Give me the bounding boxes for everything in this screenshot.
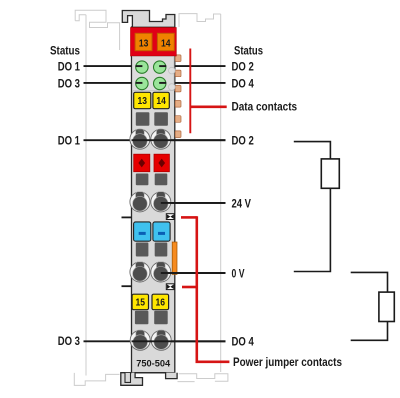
clamp slot mid2-right <box>155 243 168 257</box>
ghost module right: bottom foot <box>178 374 228 382</box>
orange ejector bar <box>172 242 177 274</box>
wire: clamp DO1/DO2 row <box>84 139 226 141</box>
wire stub out of LED DO2 <box>159 65 166 67</box>
wire: status DO3/DO4 row <box>84 82 226 84</box>
svg-text:Status: Status <box>50 44 80 58</box>
LED DO2 <box>154 61 166 73</box>
red terminal block top <box>131 28 177 57</box>
clamp slot upper-right <box>154 112 168 126</box>
clamp slot upper-left <box>136 112 150 126</box>
red marker plus right <box>154 154 169 172</box>
terminal clamp row2 (24V) <box>130 192 226 212</box>
unpopulated LED hole A <box>169 67 176 74</box>
module top profile <box>122 11 175 28</box>
module bottom foot slot <box>125 373 131 383</box>
red bracket: data contacts <box>190 49 226 134</box>
blue actuator left <box>134 222 151 241</box>
power jumper contact stub left (24V) <box>122 216 132 218</box>
svg-text:Status: Status <box>234 44 263 58</box>
wire stub into LED DO3 <box>136 82 143 84</box>
LED DO1 <box>136 61 148 73</box>
ghost module left: bottom foot <box>74 373 119 386</box>
power jumper contact symbol (0V) <box>166 284 174 290</box>
orange label 14 (top) <box>157 33 174 50</box>
ghost module right: top profile <box>179 14 221 27</box>
resistor R1 <box>321 159 339 188</box>
clamp slot bottom-right <box>154 311 168 324</box>
load circuit 2: wire resistor to DO4 <box>351 322 388 341</box>
module body <box>132 27 175 373</box>
terminal clamp row4 (DO3/DO4) <box>130 330 225 350</box>
terminal clamp row3 (0V) <box>130 262 226 282</box>
module bottom foot <box>121 373 177 386</box>
blue actuator right <box>153 222 170 241</box>
svg-text:Power jumper contacts: Power jumper contacts <box>233 355 342 369</box>
svg-text:DO 4: DO 4 <box>232 76 255 90</box>
svg-text:16: 16 <box>156 298 166 309</box>
clamp slot mid2-left <box>136 243 149 257</box>
svg-text:0 V: 0 V <box>232 266 245 280</box>
power jumper contact stub left (0V) <box>122 285 132 287</box>
svg-text:DO 1: DO 1 <box>58 60 81 74</box>
clamp slot bottom-left <box>135 311 149 324</box>
load circuit 2: wire 0V to resistor <box>351 272 388 292</box>
wire: 24V row <box>161 202 226 204</box>
data contact tab 4 <box>175 101 181 108</box>
data contact tab 3 <box>175 85 181 92</box>
data contact tab 6 <box>175 131 181 138</box>
svg-text:14: 14 <box>161 38 171 49</box>
orange label 13 (top) <box>135 33 152 50</box>
load circuit 1: wire DO2 to resistor <box>294 142 331 159</box>
svg-text:Data contacts: Data contacts <box>232 100 298 114</box>
red bracket: power jumper contacts <box>181 216 229 361</box>
svg-text:DO 4: DO 4 <box>232 334 255 348</box>
ghost module left: left edge <box>85 15 87 376</box>
svg-text:13: 13 <box>139 38 149 49</box>
load circuit 1: wire resistor to 0V <box>294 188 331 271</box>
svg-text:750-504: 750-504 <box>136 358 171 369</box>
ghost module right: right edge <box>220 14 222 372</box>
yellow label 13 <box>134 92 151 108</box>
svg-text:DO 2: DO 2 <box>232 60 255 74</box>
unpopulated LED hole B <box>169 84 176 91</box>
ghost module left: top profile <box>75 10 119 50</box>
wire: status DO1/DO2 row <box>84 65 226 67</box>
clamp slot mid1-right <box>155 174 168 186</box>
power jumper contact symbol (24V) <box>166 214 174 220</box>
terminal clamp row1 <box>130 129 226 149</box>
data contact tab 2 <box>175 70 181 77</box>
red marker plus left <box>134 154 150 172</box>
data contact tab 1 <box>175 55 181 62</box>
svg-text:DO 3: DO 3 <box>58 334 81 348</box>
blue actuator slot right <box>158 232 165 235</box>
svg-text:13: 13 <box>138 96 148 107</box>
LED DO3 <box>136 77 148 89</box>
wire stub into LED DO1 <box>136 65 143 67</box>
data contact tab 5 <box>175 116 181 123</box>
LED DO4 <box>154 77 166 89</box>
svg-text:DO 3: DO 3 <box>58 76 81 90</box>
resistor R2 <box>379 292 394 321</box>
svg-text:DO 2: DO 2 <box>232 134 255 148</box>
svg-text:15: 15 <box>136 298 146 309</box>
LED panel frame <box>132 57 174 91</box>
svg-text:24 V: 24 V <box>232 196 252 210</box>
wire: clamp DO3/DO4 row <box>84 340 226 342</box>
blue actuator slot left <box>139 232 146 235</box>
svg-text:DO 1: DO 1 <box>58 134 81 148</box>
clamp slot mid1-left <box>136 174 149 186</box>
yellow label 14 <box>153 92 169 108</box>
wire stub out of LED DO4 <box>159 82 166 84</box>
wire: 0V row <box>161 272 226 274</box>
yellow label 15 <box>132 294 148 310</box>
svg-text:14: 14 <box>156 96 166 107</box>
yellow label 16 <box>152 294 169 310</box>
